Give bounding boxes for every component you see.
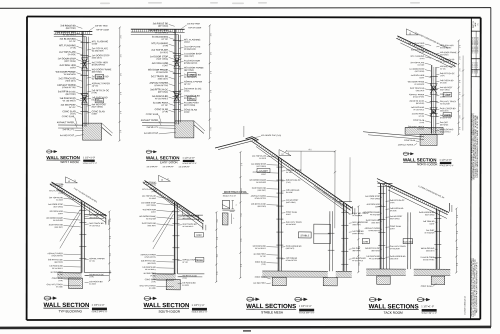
svg-text:CONC SLAB: CONC SLAB: [421, 285, 433, 288]
svg-text:STABLE MESA: STABLE MESA: [261, 310, 284, 314]
svg-text:24″ OC: 24″ OC: [69, 107, 76, 109]
svg-text:JAMB: JAMB: [96, 100, 103, 103]
svg-text:4x4 WD POST: 4x4 WD POST: [253, 283, 266, 285]
svg-text:(BEYOND): (BEYOND): [258, 206, 267, 208]
svg-text:2′-0: 2′-0: [459, 80, 461, 83]
svg-text:EA SIDE: EA SIDE: [149, 197, 156, 200]
svg-text:(TYP): (TYP): [89, 277, 94, 279]
svg-text:W/ ANCHOR: W/ ANCHOR: [424, 231, 435, 234]
svg-text:EA SIDE: EA SIDE: [68, 53, 77, 56]
svg-text:(NOT ORIG): (NOT ORIG): [53, 206, 63, 208]
svg-text:W/ ANCHOR: W/ ANCHOR: [64, 73, 76, 76]
svg-text:(NOT ORIG): (NOT ORIG): [64, 61, 76, 63]
svg-text:CONT: CONT: [70, 67, 77, 69]
svg-text:2′-0: 2′-0: [110, 236, 112, 239]
svg-text:CONT: CONT: [58, 213, 63, 215]
svg-text:2′-0: 2′-0: [217, 219, 219, 222]
svg-text:W/ 16d NAILS: W/ 16d NAILS: [145, 268, 157, 271]
svg-text:2′-0: 2′-0: [459, 115, 461, 118]
svg-text:2′-0: 2′-0: [459, 104, 461, 107]
svg-text:2′-0: 2′-0: [210, 90, 212, 93]
svg-text:(BEYOND): (BEYOND): [54, 262, 63, 264]
svg-text:2′-0: 2′-0: [359, 213, 361, 216]
svg-text:W/ 16d NAILS: W/ 16d NAILS: [440, 60, 452, 63]
svg-text:W/ ANCHOR: W/ ANCHOR: [184, 48, 196, 51]
svg-text:1x6 SHIPLAP: 1x6 SHIPLAP: [178, 165, 190, 168]
svg-text:2′-0: 2′-0: [110, 219, 112, 222]
svg-text:2′-0: 2′-0: [457, 231, 459, 234]
svg-text:71: 71: [477, 24, 479, 26]
svg-text:1 1/2″=1′-0″: 1 1/2″=1′-0″: [83, 156, 95, 159]
svg-text:CONC SLAB: CONC SLAB: [62, 115, 75, 118]
svg-text:W/ ANCHOR: W/ ANCHOR: [440, 102, 451, 105]
svg-text:2′-0: 2′-0: [120, 35, 122, 38]
svg-text:NORTH DOOR: NORTH DOOR: [417, 162, 438, 166]
svg-text:(NOT ORIG): (NOT ORIG): [146, 205, 156, 207]
svg-text:STABLE: STABLE: [300, 234, 309, 237]
svg-text:BTWN RFTRS: BTWN RFTRS: [440, 117, 452, 119]
svg-text:2′-0: 2′-0: [241, 214, 243, 217]
svg-text:(NOT ORIG): (NOT ORIG): [390, 218, 400, 220]
svg-text:(SEE DET): (SEE DET): [258, 190, 267, 192]
svg-text:24″ OC: 24″ OC: [92, 86, 99, 88]
svg-text:2′-0: 2′-0: [210, 52, 212, 55]
svg-text:SCALE 3/4″=1′-0″: SCALE 3/4″=1′-0″: [421, 312, 437, 315]
svg-text:TACK ROOM: TACK ROOM: [384, 311, 403, 315]
svg-text:W/ 16d NAILS: W/ 16d NAILS: [413, 108, 425, 111]
svg-text:(TYP): (TYP): [420, 122, 425, 124]
svg-text:2′-0: 2′-0: [359, 263, 361, 266]
svg-text:(BEYOND): (BEYOND): [158, 92, 168, 94]
svg-text:4x4 WD POST: 4x4 WD POST: [144, 133, 159, 135]
svg-text:(NOT ORIG): (NOT ORIG): [92, 107, 104, 109]
svg-text:EAST DOOR: EAST DOOR: [160, 160, 178, 164]
svg-text:2′-0: 2′-0: [457, 263, 459, 266]
svg-text:(SEE DET): (SEE DET): [286, 248, 295, 250]
svg-text:(SEE DET): (SEE DET): [416, 90, 425, 92]
svg-text:2x6 WD TRIM: 2x6 WD TRIM: [95, 25, 108, 27]
svg-text:BTWN RFTRS: BTWN RFTRS: [62, 87, 76, 89]
svg-text:(BEYOND): (BEYOND): [66, 94, 76, 96]
svg-text:2′-0: 2′-0: [457, 247, 459, 250]
svg-text:2′-0: 2′-0: [210, 128, 212, 131]
svg-text:1 1/2″=1′-0″: 1 1/2″=1′-0″: [299, 305, 312, 308]
svg-text:DOOR TRACK DETAIL: DOOR TRACK DETAIL: [224, 191, 248, 194]
svg-text:W/ ANCHOR: W/ ANCHOR: [370, 213, 381, 216]
svg-text:(BEYOND): (BEYOND): [66, 28, 76, 30]
svg-text:1050: 1050: [189, 74, 195, 77]
svg-text:2′-0: 2′-0: [459, 92, 461, 95]
svg-text:HISTORIC AMERICAN BUILDINGS SU: HISTORIC AMERICAN BUILDINGS SURVEY SHEET…: [476, 115, 479, 178]
svg-text:W/ 16d NAILS: W/ 16d NAILS: [413, 44, 425, 47]
svg-text:(TYP): (TYP): [163, 111, 169, 113]
svg-text:1 1/2″=1′-0″: 1 1/2″=1′-0″: [92, 304, 105, 307]
svg-text:CONT: CONT: [162, 65, 169, 67]
svg-text:CONC SLAB: CONC SLAB: [146, 113, 159, 116]
svg-text:1: 1: [233, 218, 234, 220]
svg-text:SHEET 14 OF 21: SHEET 14 OF 21: [477, 62, 479, 74]
svg-text:24″ OC: 24″ OC: [260, 256, 266, 258]
svg-text:BTWN RFTRS: BTWN RFTRS: [440, 47, 452, 49]
svg-text:(TYP): (TYP): [151, 281, 156, 283]
svg-text:CONT: CONT: [430, 223, 435, 225]
svg-text:(TYP): (TYP): [184, 91, 190, 93]
svg-text:SHEET 14 OF 21: SHEET 14 OF 21: [472, 62, 474, 74]
svg-text:(TYP): (TYP): [92, 93, 98, 95]
svg-text:(NOT ORIG): (NOT ORIG): [415, 71, 425, 73]
svg-text:W/ ANCHOR: W/ ANCHOR: [92, 50, 104, 53]
svg-text:(TYP): (TYP): [58, 193, 63, 195]
svg-text:W/ ANCHOR: W/ ANCHOR: [352, 214, 363, 217]
svg-text:EA SIDE: EA SIDE: [56, 199, 63, 202]
svg-text:(TYP): (TYP): [163, 45, 169, 47]
svg-text:24″ OC: 24″ OC: [440, 68, 446, 70]
svg-text:BTWN RFTRS: BTWN RFTRS: [423, 259, 435, 261]
svg-text:(SEE DET): (SEE DET): [66, 81, 77, 83]
svg-text:BTWN RFTRS: BTWN RFTRS: [413, 96, 425, 98]
svg-text:W/ ANCHOR: W/ ANCHOR: [146, 217, 157, 220]
svg-text:TACK RM: TACK RM: [403, 241, 412, 244]
svg-text:(NOT ORIG): (NOT ORIG): [256, 166, 266, 168]
svg-text:1x6 SHIPLAP: 1x6 SHIPLAP: [162, 165, 174, 168]
svg-text:2′-0: 2′-0: [120, 54, 122, 57]
svg-text:24″ OC: 24″ OC: [184, 84, 191, 86]
svg-text:W/ 16d NAILS: W/ 16d NAILS: [255, 247, 267, 250]
svg-text:2x6 SILL PL: 2x6 SILL PL: [146, 127, 158, 129]
svg-text:(SEE DET): (SEE DET): [390, 258, 399, 260]
svg-text:1 1/2″=1′-0″: 1 1/2″=1′-0″: [192, 304, 205, 307]
svg-text:TOP OF DOOR: TOP OF DOOR: [188, 27, 202, 29]
svg-text:EA SIDE: EA SIDE: [182, 284, 189, 287]
svg-text:SOUTH DOOR: SOUTH DOOR: [158, 310, 180, 314]
svg-text:2x6 WD TRIM: 2x6 WD TRIM: [187, 23, 200, 25]
svg-text:SCALE 3/4″=1′-0″: SCALE 3/4″=1′-0″: [439, 164, 454, 167]
svg-text:(SEE DET): (SEE DET): [147, 225, 156, 227]
svg-text:EA SIDE: EA SIDE: [160, 51, 169, 54]
svg-text:(BEYOND): (BEYOND): [352, 250, 361, 252]
svg-text:TOP OF DOOR: TOP OF DOOR: [96, 29, 110, 31]
svg-text:CONT: CONT: [184, 42, 190, 44]
svg-text:W/ ANCHOR: W/ ANCHOR: [390, 247, 401, 250]
svg-text:BTWN RFTRS: BTWN RFTRS: [286, 260, 298, 262]
svg-text:W/ 16d NAILS: W/ 16d NAILS: [63, 33, 77, 36]
svg-text:1x6 SHIPLAP: 1x6 SHIPLAP: [146, 165, 158, 168]
svg-text:EA SIDE: EA SIDE: [418, 64, 425, 67]
svg-text:(SEE DET): (SEE DET): [54, 227, 63, 229]
svg-text:(NOT ORIG): (NOT ORIG): [370, 198, 380, 200]
svg-text:CONT: CONT: [390, 228, 395, 230]
svg-text:2′-0: 2′-0: [241, 188, 243, 191]
svg-text:CONT: CONT: [419, 77, 424, 79]
svg-text:7′-9: 7′-9: [335, 199, 337, 202]
svg-text:(TYP): (TYP): [261, 264, 266, 266]
svg-text:(BEYOND): (BEYOND): [184, 70, 194, 72]
svg-text:1050: 1050: [97, 76, 103, 79]
svg-text:2′-0: 2′-0: [359, 246, 361, 249]
svg-text:1060: 1060: [445, 94, 451, 97]
svg-text:2′-0: 2′-0: [217, 254, 219, 257]
svg-text:W/ 16d NAILS: W/ 16d NAILS: [89, 224, 101, 227]
svg-text:CONT: CONT: [286, 214, 291, 216]
svg-text:(TYP): (TYP): [70, 48, 76, 50]
svg-text:DRB: DRB: [364, 241, 369, 243]
svg-text:JAMB: JAMB: [188, 98, 195, 101]
svg-text:24″ OC: 24″ OC: [419, 52, 425, 54]
svg-text:FIELD SUPERVISOR PROF JOHN MES: FIELD SUPERVISOR PROF JOHN MESSINA SHEET…: [475, 262, 478, 313]
svg-text:W/ ANCHOR: W/ ANCHOR: [256, 181, 267, 184]
svg-text:CONT: CONT: [261, 174, 266, 176]
svg-text:24″ OC: 24″ OC: [161, 39, 168, 41]
svg-text:(BEYOND): (BEYOND): [147, 263, 156, 265]
svg-text:BTWN RFTRS: BTWN RFTRS: [92, 65, 106, 67]
svg-text:2′-0: 2′-0: [210, 109, 212, 112]
svg-text:BTWN RFTRS: BTWN RFTRS: [154, 85, 168, 87]
svg-text:CONT: CONT: [92, 44, 98, 46]
svg-text:(NOT ORIG): (NOT ORIG): [425, 214, 435, 216]
svg-text:2′-0: 2′-0: [457, 215, 459, 218]
svg-text:24″ OC: 24″ OC: [286, 172, 292, 174]
svg-text:(TYP): (TYP): [286, 182, 291, 184]
svg-text:(TYP): (TYP): [390, 202, 395, 204]
svg-text:W/ ANCHOR: W/ ANCHOR: [53, 219, 64, 222]
svg-text:ASPHALT PAPER: ASPHALT PAPER: [141, 119, 159, 122]
svg-text:2′-0: 2′-0: [110, 253, 112, 256]
svg-text:SCALE 3″=1′-0″: SCALE 3″=1′-0″: [223, 195, 237, 198]
svg-text:CONT: CONT: [151, 212, 156, 214]
svg-text:24″ OC: 24″ OC: [69, 41, 76, 43]
svg-text:(BEYOND): (BEYOND): [158, 26, 168, 28]
svg-text:2′-0: 2′-0: [359, 230, 361, 233]
svg-text:BTWN RFTRS: BTWN RFTRS: [255, 198, 267, 200]
svg-text:SCALE 3/4″=1′-0″: SCALE 3/4″=1′-0″: [192, 310, 208, 313]
svg-text:24″ OC: 24″ OC: [89, 261, 95, 263]
svg-text:2′-0: 2′-0: [110, 271, 112, 274]
svg-text:EA SIDE: EA SIDE: [56, 285, 63, 288]
svg-text:2′-0: 2′-0: [459, 68, 461, 71]
svg-text:2′-0: 2′-0: [217, 272, 219, 275]
svg-text:SCALE 3/4″=1′-0″: SCALE 3/4″=1′-0″: [83, 162, 98, 165]
svg-text:EA SIDE: EA SIDE: [149, 287, 156, 290]
svg-text:SHEET 14 OF 21: SHEET 14 OF 21: [474, 62, 476, 74]
svg-text:2′-0: 2′-0: [120, 130, 122, 133]
svg-text:(BEYOND): (BEYOND): [371, 250, 380, 252]
svg-text:SCALE 3/4″=1′-0″: SCALE 3/4″=1′-0″: [299, 311, 315, 314]
svg-text:2′-0: 2′-0: [120, 73, 122, 76]
svg-text:(SEE DET): (SEE DET): [440, 110, 449, 112]
svg-text:TYP BLOCKING: TYP BLOCKING: [58, 309, 82, 313]
svg-text:2′-0: 2′-0: [241, 239, 243, 242]
svg-text:2′-0: 2′-0: [459, 45, 461, 48]
svg-text:(BEYOND): (BEYOND): [92, 72, 102, 74]
svg-text:CONT: CONT: [92, 114, 98, 116]
svg-text:EA SIDE: EA SIDE: [259, 157, 266, 160]
svg-text:JAMB: JAMB: [196, 259, 203, 262]
svg-text:2′-0: 2′-0: [210, 71, 212, 74]
svg-text:(NOT ORIG): (NOT ORIG): [184, 105, 196, 107]
svg-text:(SEE DET): (SEE DET): [158, 78, 169, 80]
svg-text:W/ 16d NAILS: W/ 16d NAILS: [155, 97, 169, 100]
svg-text:1 1/2″=1′-0″: 1 1/2″=1′-0″: [439, 159, 451, 162]
svg-text:2′-0: 2′-0: [241, 264, 243, 267]
svg-text:(BEYOND): (BEYOND): [416, 103, 425, 105]
svg-text:(NOT ORIG): (NOT ORIG): [440, 89, 450, 91]
svg-text:MTL RIDGE CAP (TYP): MTL RIDGE CAP (TYP): [261, 134, 281, 137]
svg-text:24″ OC: 24″ OC: [182, 262, 188, 264]
svg-text:24″ OC: 24″ OC: [57, 186, 63, 188]
svg-text:(BEYOND): (BEYOND): [440, 54, 449, 56]
svg-text:CONT: CONT: [184, 112, 190, 114]
svg-text:(SEE DET): (SEE DET): [184, 56, 194, 58]
svg-text:1 1/2″=1′-0″: 1 1/2″=1′-0″: [421, 305, 434, 308]
svg-text:2: 2: [236, 204, 237, 206]
svg-text:(NOT ORIG): (NOT ORIG): [286, 202, 296, 204]
svg-text:24″ OC: 24″ OC: [419, 116, 425, 118]
svg-text:W/ 16d NAILS: W/ 16d NAILS: [369, 257, 381, 260]
svg-text:(NOT ORIG): (NOT ORIG): [157, 59, 169, 61]
svg-text:4x4 WD POST: 4x4 WD POST: [60, 135, 75, 137]
svg-text:W/ ANCHOR: W/ ANCHOR: [156, 71, 168, 74]
svg-text:CONC SLAB: CONC SLAB: [255, 276, 267, 279]
svg-text:JAMB: JAMB: [444, 114, 451, 117]
svg-text:2′-0: 2′-0: [241, 163, 243, 166]
svg-text:W/ 16d NAILS: W/ 16d NAILS: [52, 267, 64, 270]
svg-text:2′-0: 2′-0: [459, 57, 461, 60]
svg-text:EA SIDE: EA SIDE: [440, 81, 447, 84]
svg-text:(TYP): (TYP): [182, 278, 187, 280]
svg-text:W/ 16d NAILS: W/ 16d NAILS: [182, 225, 194, 228]
svg-text:(SEE DET): (SEE DET): [426, 250, 435, 252]
svg-text:SCALE 3/4″=1′-0″: SCALE 3/4″=1′-0″: [182, 162, 197, 165]
svg-text:2′-0: 2′-0: [120, 92, 122, 95]
svg-text:W/ 16d NAILS: W/ 16d NAILS: [63, 99, 77, 102]
svg-text:2′-0: 2′-0: [459, 127, 461, 130]
svg-text:EA SIDE: EA SIDE: [390, 209, 397, 212]
svg-text:24″ OC: 24″ OC: [150, 184, 156, 186]
svg-text:ASPHALT PAPER: ASPHALT PAPER: [398, 143, 414, 146]
svg-text:(TYP): (TYP): [58, 280, 63, 282]
svg-text:1040: 1040: [196, 234, 202, 237]
svg-text:24″ OC: 24″ OC: [161, 105, 168, 107]
svg-text:2′-0: 2′-0: [210, 33, 212, 36]
svg-text:W/ ANCHOR: W/ ANCHOR: [286, 223, 297, 226]
svg-text:(SEE DET): (SEE DET): [371, 222, 380, 224]
svg-text:2′-0: 2′-0: [217, 237, 219, 240]
svg-text:(TYP): (TYP): [440, 75, 445, 77]
svg-text:CONC SLAB: CONC SLAB: [404, 139, 416, 142]
svg-text:4-1 MAY 1982 AZ-14: 4-1 MAY 1982 AZ-14: [463, 295, 466, 314]
svg-text:SCALE 3/4″=1′-0″: SCALE 3/4″=1′-0″: [92, 310, 108, 313]
svg-text:(BEYOND): (BEYOND): [440, 124, 449, 126]
svg-text:CONT: CONT: [375, 206, 380, 208]
svg-text:W/ 16d NAILS: W/ 16d NAILS: [155, 31, 169, 34]
svg-text:EA SIDE: EA SIDE: [286, 191, 293, 194]
svg-text:W/ ANCHOR: W/ ANCHOR: [414, 83, 425, 86]
svg-text:(SEE DET): (SEE DET): [92, 58, 102, 60]
svg-text:BTWN RFTRS: BTWN RFTRS: [52, 255, 64, 257]
svg-text:2′-0: 2′-0: [120, 111, 122, 114]
svg-text:9′-2: 9′-2: [309, 149, 312, 151]
svg-text:WEST DOOR: WEST DOOR: [60, 160, 79, 164]
svg-text:BTWN RFTRS: BTWN RFTRS: [369, 230, 381, 232]
svg-text:(SEE DET): (SEE DET): [352, 224, 361, 226]
svg-text:(TYP): (TYP): [420, 58, 425, 60]
svg-text:ASPHALT PAPER: ASPHALT PAPER: [57, 121, 75, 124]
svg-text:1 1/2″=1′-0″: 1 1/2″=1′-0″: [182, 157, 194, 160]
svg-text:EA SIDE: EA SIDE: [89, 283, 96, 286]
svg-text:2x6 SILL PL: 2x6 SILL PL: [62, 129, 74, 131]
svg-text:BTWN RFTRS: BTWN RFTRS: [184, 63, 198, 65]
svg-text:(TYP): (TYP): [151, 191, 156, 193]
svg-text:BTWN RFTRS: BTWN RFTRS: [145, 257, 157, 259]
